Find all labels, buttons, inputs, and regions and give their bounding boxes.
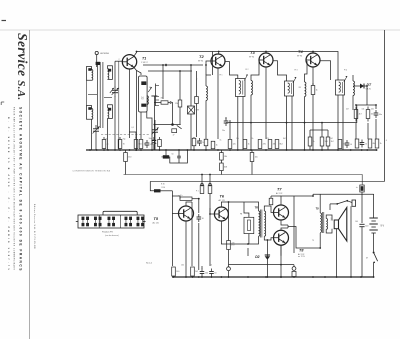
svg-text:T9: T9: [312, 240, 314, 242]
svg-text:AC 125: AC 125: [153, 222, 159, 225]
output transformer core: [322, 212, 324, 233]
svg-text:2k: 2k: [313, 141, 315, 143]
svg-text:SF 94: SF 94: [249, 57, 254, 59]
svg-text:1k: 1k: [248, 144, 250, 146]
wire r5 left: [154, 102, 161, 104]
wire right rail: [384, 30, 386, 181]
svg-text:(vue de dessous): (vue de dessous): [105, 235, 119, 237]
switch S1a: [337, 201, 347, 204]
resistor R2: [118, 140, 122, 149]
FI1 bottom winding: [141, 104, 146, 107]
svg-text:SOCIETE ANONYME AU CAPITAL DE: SOCIETE ANONYME AU CAPITAL DE 8.000.000 …: [19, 107, 23, 272]
wire T7 emitter: [281, 220, 288, 225]
wire r39 link: [310, 129, 328, 131]
wire FI2 down b: [242, 97, 244, 151]
svg-text:50: 50: [172, 154, 174, 156]
ferrite core: [97, 62, 99, 128]
svg-text:1k: 1k: [316, 90, 318, 92]
wire R12 vert: [229, 120, 231, 139]
wire drv sec top: [264, 206, 273, 213]
feedback box: [244, 217, 254, 233]
wire bus drop a: [247, 248, 249, 256]
wire T4 base: [306, 59, 307, 61]
coil L2b: [108, 108, 109, 119]
svg-text:AC 132: AC 132: [276, 192, 282, 195]
bus joints: [89, 149, 91, 151]
wire T5 base net: [172, 196, 180, 199]
wire d2 vert: [266, 240, 268, 277]
coil L1a taps: [87, 67, 92, 81]
wire det b: [355, 123, 357, 139]
terminal J1: [227, 267, 231, 271]
wire r9 dn: [159, 147, 161, 151]
wire DT right: [364, 86, 367, 105]
svg-text:5k: 5k: [106, 139, 108, 141]
wire sw feed: [330, 203, 337, 205]
wire R26 down: [125, 162, 127, 175]
wire T5 base: [172, 213, 178, 215]
wire T2 collector: [218, 52, 220, 55]
svg-text:Service S.A.: Service S.A.: [15, 33, 30, 100]
svg-text:1k: 1k: [144, 144, 146, 146]
resistor R31: [180, 197, 192, 200]
svg-text:50: 50: [210, 265, 212, 267]
svg-text:470: 470: [263, 144, 266, 146]
resistor R28: [208, 186, 212, 194]
trimmer CT1: [112, 89, 118, 91]
svg-text:1k2: 1k2: [330, 138, 333, 140]
wire sw down: [373, 262, 375, 277]
output transformer secondary: [326, 219, 327, 230]
wire DT left: [353, 85, 360, 87]
svg-text:0,1: 0,1: [132, 127, 134, 129]
resistor R8: [192, 138, 196, 146]
wire T2 out: [226, 62, 238, 79]
wire T7 collector: [281, 194, 313, 205]
wire L1 left down: [86, 80, 88, 105]
wire drv pri top: [229, 202, 259, 211]
output transformer primary: [320, 213, 321, 233]
terminal J2: [292, 267, 296, 271]
resistor R24: [368, 139, 372, 148]
svg-text:R. C. SEINE 55 B 4299 - C. C: R. C. SEINE 55 B 4299 - C. C. P. PARIS 5…: [7, 117, 10, 272]
wire CV2 up: [154, 120, 156, 126]
resistor R18: [354, 110, 358, 119]
resistor R35: [360, 185, 364, 192]
wire c3a right: [171, 103, 172, 124]
resistor R15: [268, 140, 272, 149]
wire sw to jack: [347, 201, 352, 203]
svg-text:1k: 1k: [380, 143, 382, 145]
wire L3 base link: [206, 75, 211, 79]
wire pot b: [209, 175, 211, 186]
svg-text:2k7: 2k7: [299, 87, 302, 89]
battery B1: [369, 217, 377, 219]
wire slant: [177, 125, 182, 128]
resistor R34: [227, 241, 231, 250]
wire R27 down: [251, 162, 253, 175]
wire L2 down b: [107, 118, 109, 150]
joint det: [366, 85, 368, 87]
wire sp top: [329, 204, 331, 210]
wire det up: [375, 105, 377, 109]
wire T8 collector: [281, 228, 288, 230]
svg-text:18k: 18k: [224, 156, 227, 158]
resistor R19: [366, 110, 370, 119]
wire c3 dn: [153, 144, 155, 150]
svg-text:Edition Service S.A. N 2179-65: Edition Service S.A. N 2179-65-RR: [33, 204, 36, 249]
IF4 secondary: [353, 81, 354, 96]
svg-text:470: 470: [266, 138, 269, 140]
wire t5 vert a: [191, 202, 193, 266]
node blob: [171, 123, 174, 126]
svg-text:FI 1: FI 1: [220, 75, 223, 77]
AVC joints: [250, 122, 252, 124]
switch bank dividers: [98, 215, 100, 228]
wire osc fb: [118, 61, 120, 150]
wire sec4 down: [352, 95, 354, 110]
diode D2: [265, 256, 270, 260]
resistor R23: [355, 139, 359, 148]
transistor T7: [274, 205, 289, 220]
wire c15 link: [178, 158, 180, 163]
wire r41 up: [270, 196, 272, 198]
wire FI4 down a: [337, 95, 339, 150]
svg-text:12k: 12k: [236, 138, 239, 140]
svg-text:REGIE PAR LA LOI DU 24 JUILLET: REGIE PAR LA LOI DU 24 JUILLET 1867 ET P…: [13, 107, 16, 271]
resistor R4: [139, 140, 143, 149]
joint out: [312, 195, 314, 197]
resistor R27: [250, 153, 254, 162]
coil L1a: [92, 70, 93, 81]
wire T5 collector: [186, 202, 192, 206]
wire j1 down: [228, 271, 230, 277]
svg-text:2k: 2k: [107, 144, 109, 146]
svg-text:8k2: 8k2: [280, 144, 283, 146]
svg-text:T1: T1: [142, 57, 146, 61]
resistor R36: [220, 153, 224, 161]
wire r30 hook: [150, 181, 154, 190]
coil L2b taps: [108, 105, 113, 119]
joint mid2: [198, 198, 200, 200]
title block corner mark: [1, 101, 4, 103]
wire T1 emitter long: [136, 71, 138, 151]
wire r36 mid: [220, 160, 222, 163]
bus chassis: [86, 149, 377, 151]
svg-text:50: 50: [350, 144, 352, 146]
wire T4 emitter: [312, 67, 314, 86]
wire CT1 down: [114, 96, 116, 150]
wire T6 collector: [221, 202, 228, 207]
svg-text:AC 125: AC 125: [219, 199, 225, 202]
svg-text:40n: 40n: [371, 109, 374, 111]
svg-text:T2: T2: [199, 54, 204, 59]
driver transformer primary: [259, 211, 260, 236]
wire FI1 down b: [147, 112, 152, 150]
wire ot top feed: [319, 194, 321, 213]
resistor R6: [178, 100, 182, 107]
svg-text:12k: 12k: [175, 103, 178, 105]
resistor R9: [158, 140, 162, 147]
wire fb top: [244, 202, 249, 217]
wire FI2 down a: [237, 97, 239, 151]
resistor R26: [124, 153, 128, 162]
wire ot sec bot: [326, 229, 332, 233]
transistor T8: [274, 230, 289, 245]
coil L1b taps: [108, 66, 113, 80]
svg-text:ou 72 N: ou 72 N: [298, 256, 305, 258]
wire c15 stub: [178, 150, 180, 156]
switch bank outline: [78, 215, 144, 228]
svg-text:1 k: 1 k: [180, 195, 183, 197]
svg-text:70p: 70p: [123, 139, 126, 141]
svg-text:P 1: P 1: [196, 191, 199, 193]
bottom joints: [173, 276, 175, 278]
resistor R13: [243, 140, 247, 149]
svg-text:FI 3: FI 3: [295, 70, 298, 72]
wire r30 right: [161, 190, 173, 192]
wire jack row: [229, 264, 295, 266]
bus AF: [150, 180, 384, 182]
potentiometer P1: [200, 186, 204, 194]
wire R27 top: [251, 150, 253, 153]
wire c10 up: [198, 199, 200, 213]
svg-text:SF 94: SF 94: [198, 61, 203, 63]
jack J3: [352, 200, 356, 206]
wire FI4 down b: [342, 95, 344, 150]
wire r41 link: [271, 195, 281, 197]
svg-text:10k: 10k: [371, 114, 374, 116]
wire batt down: [373, 233, 375, 252]
wire ctn up: [190, 65, 192, 106]
wire sec3 top: [305, 61, 308, 82]
wire det d: [375, 119, 377, 139]
wire out mid down: [312, 195, 314, 197]
switch bank contacts: [82, 217, 85, 220]
coil L3: [206, 86, 207, 101]
svg-text:270: 270: [231, 245, 234, 247]
wire pot a: [201, 175, 203, 186]
wire t6 to driver: [221, 238, 240, 244]
capacitor C7: [374, 112, 379, 114]
switch bank strap: [103, 211, 137, 215]
IF transformer FI4: [336, 80, 345, 95]
wire r20 down: [321, 146, 323, 150]
wire r39 up: [309, 130, 311, 137]
wire T6 base: [210, 208, 214, 214]
wire T2 emitter: [217, 68, 219, 139]
wire r34 up: [228, 202, 230, 241]
FI1 secondary tapped: [155, 84, 157, 107]
antenna connector: [96, 62, 101, 65]
antenna terminal: [95, 51, 98, 54]
svg-text:1k: 1k: [252, 138, 254, 140]
capacitor C13 electrolytic: [359, 223, 364, 225]
wire fb bot: [248, 234, 250, 244]
driver transformer secondary: [264, 211, 265, 236]
wire c11 up: [201, 266, 203, 269]
page top rule: [0, 29, 400, 31]
wire mid tap: [287, 225, 289, 228]
svg-text:50: 50: [214, 272, 216, 274]
wire T2 base: [206, 61, 211, 75]
wire T4 out: [320, 61, 331, 80]
resistor R20: [320, 137, 324, 146]
wire ot pri bot: [319, 233, 321, 248]
svg-text:D2: D2: [255, 255, 259, 259]
bus AVC: [124, 175, 363, 185]
wire r9 up: [159, 137, 161, 140]
wire FI3 down b: [291, 96, 293, 150]
coil L1b: [108, 69, 109, 80]
wire v154: [153, 96, 155, 150]
speaker: [334, 220, 338, 229]
svg-text:40n: 40n: [379, 114, 382, 116]
wire FI3 down a: [286, 96, 288, 150]
top rail joints: [136, 51, 138, 53]
svg-text:TR: TR: [255, 206, 259, 210]
wire c14 stub: [165, 150, 167, 155]
wire v180 dn: [179, 107, 181, 125]
wire r35 down: [361, 192, 363, 223]
svg-text:39k: 39k: [161, 98, 164, 100]
svg-text:70: 70: [123, 144, 125, 146]
wire rail stub a: [212, 52, 214, 76]
resistor R38: [311, 86, 315, 95]
variable capacitor CV2: [152, 129, 158, 131]
wire ctn down: [190, 114, 192, 150]
wire det c: [367, 123, 369, 139]
svg-text:100: 100: [205, 272, 208, 274]
diode DT: [360, 84, 364, 89]
svg-text:1 SF 97: 1 SF 97: [141, 62, 148, 64]
coil L2a taps: [87, 106, 92, 120]
wire c13 down: [361, 227, 363, 277]
wire ot sec top: [326, 215, 332, 220]
svg-text:50n: 50n: [149, 138, 152, 140]
transistor T1: [122, 55, 136, 69]
resistor R35 fill: [361, 186, 364, 191]
wire jack down: [350, 206, 352, 277]
wire drv sec bot: [264, 236, 273, 240]
wire L2 down a: [91, 119, 93, 150]
wire r8 dn: [193, 146, 195, 150]
capacitor C11: [200, 271, 205, 273]
svg-text:R 30: R 30: [161, 184, 165, 186]
svg-text:2: 2: [119, 59, 120, 61]
svg-text:12k: 12k: [233, 144, 236, 146]
thermistor CTN: [188, 106, 195, 114]
wire T8 emitter: [280, 245, 282, 256]
transistor T4: [306, 53, 320, 67]
wire sec3 down: [304, 97, 306, 151]
wire T1 base: [115, 60, 122, 62]
svg-text:4k7: 4k7: [346, 109, 349, 111]
component pad: [172, 129, 177, 133]
wire CV2 down: [154, 136, 156, 150]
wire T5 base down: [171, 214, 173, 267]
wire j2 up: [293, 265, 295, 267]
svg-text:OA 70: OA 70: [366, 88, 371, 91]
node pot a: [201, 174, 203, 176]
resistor R14: [258, 140, 262, 149]
svg-text:25: 25: [365, 143, 367, 145]
svg-text:20n: 20n: [222, 130, 225, 132]
svg-text:270: 270: [232, 243, 235, 245]
capacitor C3a: [170, 101, 172, 103]
title block rule: [29, 30, 31, 339]
IF3 secondary: [305, 82, 306, 97]
resistor R39: [308, 137, 312, 146]
svg-text:CONVERTISSEUR TENSION RA: CONVERTISSEUR TENSION RA: [73, 170, 111, 173]
wire sp gnd: [336, 229, 338, 277]
resistor R37: [220, 163, 224, 171]
capacitor C12: [209, 271, 214, 273]
wire T3 emitter: [265, 67, 267, 139]
FI1 top winding: [141, 81, 146, 85]
svg-text:FI 4: FI 4: [344, 70, 347, 72]
node pot b: [209, 174, 211, 176]
wire r5 right: [168, 102, 170, 104]
svg-text:Position PO: Position PO: [102, 230, 113, 233]
bus bottom: [172, 276, 374, 278]
svg-text:100: 100: [176, 271, 179, 273]
IF transformer FI1 box: [139, 76, 148, 112]
IF transformer FI3: [285, 81, 294, 96]
wire v163: [162, 65, 164, 99]
switch S1b: [373, 252, 375, 254]
coil L2a blob: [88, 107, 91, 110]
wire T6 emitter: [220, 221, 222, 238]
wire T5 base up: [171, 191, 173, 214]
wire drv pri bot: [240, 236, 259, 244]
svg-text:1k: 1k: [178, 196, 180, 198]
svg-text:R 30: R 30: [162, 187, 166, 189]
svg-text:FI 2: FI 2: [246, 69, 249, 71]
wire mid b: [148, 70, 192, 72]
resistor R40: [292, 271, 296, 276]
wire avc left seg: [154, 124, 180, 126]
wire r39 down: [309, 146, 311, 150]
wire v196 up: [196, 71, 198, 97]
svg-text:4: 4: [386, 140, 387, 142]
resistor R21: [326, 137, 330, 146]
wire osc mid link2: [104, 97, 112, 99]
resistor R30: [154, 189, 161, 192]
wire R3 top: [129, 132, 136, 138]
coil L2a: [92, 109, 93, 120]
capacitor C1: [145, 142, 150, 144]
svg-text:50n: 50n: [150, 144, 153, 146]
wire c3 up: [153, 137, 155, 140]
wire v196 dn: [196, 104, 198, 138]
node t-bar: [151, 95, 157, 97]
svg-text:1k: 1k: [220, 140, 222, 142]
wire r21 down: [327, 146, 329, 150]
coil L1a blob: [88, 68, 91, 71]
capacitor C4: [197, 140, 202, 142]
capacitor C14 electrolytic: [163, 155, 169, 158]
wire batt up: [373, 194, 375, 218]
wire T4 collector: [312, 52, 314, 54]
capacitor C2: [165, 63, 167, 65]
wire T3 collector: [265, 52, 267, 54]
wire osc mid link: [88, 94, 97, 96]
svg-text:47: 47: [173, 134, 175, 136]
resistor R33: [191, 267, 195, 276]
wire r36 down: [220, 171, 222, 175]
wire T1 base drop: [114, 61, 116, 87]
